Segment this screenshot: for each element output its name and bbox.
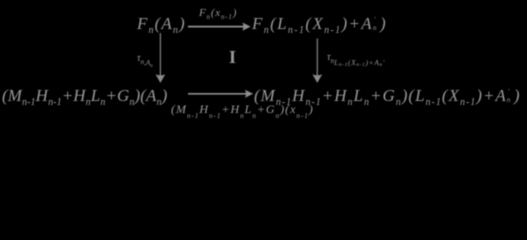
node F_n(L_{n-1}(X_{n-1})+A_n') <box>252 15 387 32</box>
node (M_{n-1}H_{n-1}+H_nL_n+G_n)(L_{n-1}(X_{n-1})+A_n') <box>254 87 520 104</box>
node I (center) <box>229 48 236 66</box>
arrow label F_n(x_{n-1}) <box>199 8 237 19</box>
label tau_{n,L_{n-1}(X_{n-1})+A_n'} (right vertical arrow) <box>327 53 385 63</box>
top horizontal arrow F_n(x_{n-1}) <box>188 23 251 31</box>
arrow label (M_{n-1}H_{n-1}+H_nL_n+G_n)(x_{n-1}) <box>171 103 314 115</box>
node F_n(A_n) <box>137 15 186 32</box>
arrows <box>0 0 527 125</box>
node (M_{n-1}H_{n-1}+H_nL_n+G_n)(A_n) <box>2 87 167 104</box>
bottom horizontal arrow <box>188 90 253 98</box>
right vertical arrow <box>312 39 322 83</box>
left vertical arrow <box>156 33 166 83</box>
label tau_{n,A_n} (left vertical arrow) <box>137 54 153 64</box>
